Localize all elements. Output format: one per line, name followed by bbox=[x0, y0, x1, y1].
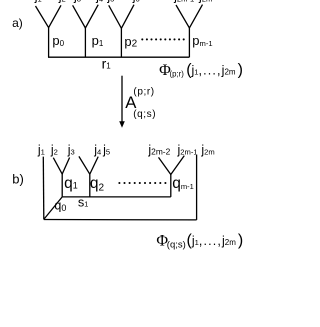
svg-text:a): a) bbox=[12, 16, 23, 30]
diagram b: tree V3 bbox=[159, 156, 185, 175]
diagram a: tree V1 bbox=[36, 5, 62, 27]
svg-text:j4: j4 bbox=[95, 0, 103, 4]
diagram b: j2m edge bbox=[196, 155, 198, 220]
svg-text:j2m-1: j2m-1 bbox=[173, 0, 194, 4]
svg-text:j6: j6 bbox=[132, 0, 140, 4]
diagram a: edge p1 drop bbox=[84, 28, 86, 57]
svg-text:(p;r): (p;r) bbox=[170, 70, 185, 79]
diagram a: tree V4 bbox=[176, 5, 203, 28]
svg-text:b): b) bbox=[12, 171, 24, 186]
arrow A shaft bbox=[121, 76, 123, 123]
diagram a: edge pm-1 drop bbox=[188, 28, 190, 57]
svg-text:j2: j2 bbox=[58, 0, 66, 4]
diagram a: dotted continuation bbox=[141, 38, 185, 40]
svg-text:(q;s): (q;s) bbox=[167, 239, 186, 250]
diagram b: edge qm-1 drop bbox=[170, 175, 172, 197]
svg-text:j3: j3 bbox=[73, 0, 81, 4]
diagram b: tree V1 bbox=[53, 158, 69, 175]
svg-text:j5: j5 bbox=[106, 0, 114, 4]
svg-text:(q;s): (q;s) bbox=[133, 109, 156, 120]
svg-text:(p;r): (p;r) bbox=[133, 86, 154, 97]
diagram a: tree V2 bbox=[73, 5, 99, 28]
diagram a: tree V3 bbox=[109, 5, 134, 29]
diagram b: upper horizontal edge s bbox=[62, 196, 171, 198]
diagram b: dotted continuation bbox=[118, 182, 166, 184]
diagram a: edge p0 drop bbox=[48, 28, 50, 58]
svg-text:j1: j1 bbox=[34, 0, 42, 4]
diagram b: edge q2 drop bbox=[89, 174, 91, 197]
diagram b: diagonal edge q0 bbox=[44, 197, 62, 220]
diagram b: tree V2 bbox=[79, 156, 98, 174]
diagram b: j1 edge bbox=[42, 157, 45, 220]
diagram b: bottom horizontal edge bbox=[44, 219, 197, 221]
diagram a: horizontal edge r1 bbox=[48, 56, 189, 58]
svg-text:j2m: j2m bbox=[198, 0, 212, 4]
arrow A head bbox=[119, 121, 125, 127]
diagram b: edge q1 drop bbox=[61, 174, 63, 197]
diagram a: edge p2 drop bbox=[120, 28, 122, 57]
